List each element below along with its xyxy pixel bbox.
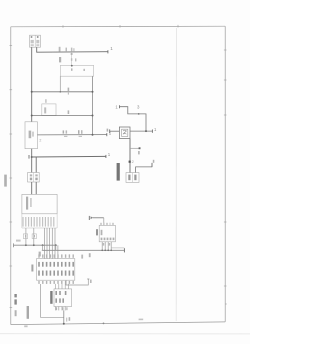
svg-text:2: 2 <box>39 138 41 142</box>
control module box <box>22 194 57 213</box>
junction dot on relay top <box>71 65 73 67</box>
wire label <box>39 252 41 257</box>
wire: S1 right pin to top bus <box>37 47 108 52</box>
margin label left <box>4 175 7 187</box>
pump output wire <box>130 130 152 132</box>
frame tick marks <box>10 25 227 308</box>
wiper switch line from MB7 <box>37 134 106 136</box>
pin labels <box>22 217 54 227</box>
fuse box B <box>32 234 36 239</box>
branch to right terminal <box>136 167 152 173</box>
junction dot H1 left <box>31 91 33 93</box>
table2 left label <box>50 291 52 304</box>
component MB7 <box>25 122 37 149</box>
wiper switch box <box>99 225 115 241</box>
terminal tick end of top bus <box>107 50 109 53</box>
relay right leg down to switch line <box>92 76 94 135</box>
relay box outline <box>60 65 93 76</box>
bus H1b <box>14 244 57 246</box>
switch contact marks <box>63 130 65 133</box>
junction dot H1 right <box>92 91 94 93</box>
stub wire right <box>66 279 88 285</box>
switch bottom pins <box>102 242 111 251</box>
switch inner marks <box>101 230 103 235</box>
table left label <box>31 265 33 272</box>
connector (two cells) <box>28 173 40 183</box>
wire H2 <box>32 115 93 117</box>
border frame <box>11 26 225 324</box>
table bottom labels <box>38 281 74 284</box>
connector face table 2 <box>54 289 72 307</box>
label washer motor (vertical) <box>117 163 120 181</box>
connector S1 (top left) <box>30 35 41 47</box>
pin strip <box>21 214 23 228</box>
svg-text:1: 1 <box>110 46 113 51</box>
junction dot H1 relay leg <box>60 91 62 93</box>
svg-text:2: 2 <box>132 160 134 164</box>
washer motor connector <box>126 173 139 183</box>
module pin wires <box>25 228 27 245</box>
relay contact marks <box>71 68 73 70</box>
splice square <box>129 161 131 163</box>
diode box <box>42 104 56 116</box>
switch label <box>96 229 98 235</box>
relay left leg <box>59 76 61 92</box>
connector face table <box>37 259 75 281</box>
wiper switch terminal <box>88 216 90 220</box>
dot on frame bottom <box>103 323 105 325</box>
labels above top bus <box>59 47 61 52</box>
wire MB7 bottom down <box>31 149 33 173</box>
fuse box A <box>23 234 27 239</box>
label left of fuse <box>59 57 61 62</box>
washer pump terminal 1 <box>119 105 121 108</box>
bus H2b <box>42 249 125 251</box>
fuse drop to relay <box>71 52 73 65</box>
table2 bottom pins <box>56 307 66 311</box>
ground path <box>41 284 64 317</box>
junction dot H2 left <box>31 115 33 117</box>
pump bottom wire <box>129 139 131 173</box>
feed line right <box>32 155 106 158</box>
branch down to connector right cell <box>35 157 37 173</box>
page edge shadow <box>0 333 250 335</box>
page fold crease <box>175 28 177 321</box>
pump left terminal <box>109 129 111 133</box>
bottom-left margin labels <box>14 294 16 297</box>
junction dot H2 right <box>92 115 94 117</box>
wire H1 <box>32 91 93 93</box>
washer pump motor <box>119 127 130 139</box>
wire: S1 left pin down to MB7 <box>31 47 33 122</box>
table top labels <box>38 254 74 257</box>
wires into module <box>31 182 33 194</box>
spur <box>130 147 140 149</box>
